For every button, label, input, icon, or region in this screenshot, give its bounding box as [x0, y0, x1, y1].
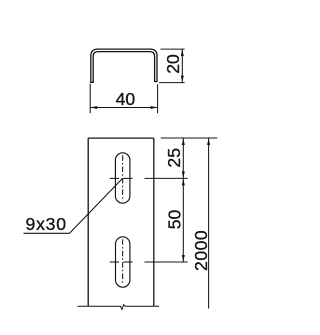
- dimension 40 line: [90, 107, 157, 109]
- dimension 40 arrow left: [90, 106, 97, 109]
- slot 2 center extension line to dimension: [145, 261, 188, 263]
- dimension 25 arrow top: [182, 138, 185, 145]
- slot 1 horizontal center tick left: [110, 177, 119, 179]
- dimension 20 line: [181, 49, 183, 83]
- dimension 40 extension line right: [157, 84, 159, 113]
- svg-text:40: 40: [116, 89, 136, 109]
- slot 2 horizontal center tick left: [110, 261, 119, 263]
- label 9x30 underline: [24, 232, 70, 234]
- dimension 40 arrow right: [151, 106, 158, 109]
- svg-text:50: 50: [164, 210, 184, 230]
- rail front view: top edge: [88, 137, 154, 139]
- dimension 20 arrow top: [181, 49, 184, 56]
- slot 1 horizontal center tick right: [123, 177, 132, 179]
- svg-text:2000: 2000: [191, 230, 211, 271]
- rail front view: bottom break line: [78, 305, 160, 310]
- slot 2 vertical centerline: [122, 239, 124, 285]
- slot 1 (9x30 oblong hole): [115, 153, 129, 203]
- dimension 2000 arrow top: [207, 138, 210, 145]
- rail front view: left edge: [87, 138, 89, 306]
- dimension 50 arrow bottom: [182, 255, 185, 262]
- svg-text:9x30: 9x30: [26, 214, 67, 234]
- leader line from 9x30 label to slot 1 center: [70, 179, 123, 234]
- svg-text:20: 20: [163, 54, 183, 74]
- slot 2 horizontal center tick right: [123, 261, 132, 263]
- dimension 50 arrow top: [182, 179, 185, 186]
- slot 1 center extension line to dimension: [145, 177, 188, 179]
- svg-text:25: 25: [164, 148, 184, 168]
- slot 1 vertical centerline: [122, 155, 124, 201]
- right dimensions: top extension line: [161, 137, 218, 139]
- dimension 25 line: [182, 138, 184, 178]
- dimension 40 extension line left: [89, 84, 91, 114]
- dimension 50 line: [182, 178, 184, 262]
- dimension 20 extension line bottom: [159, 82, 185, 84]
- slot 2 (9x30 oblong hole): [116, 237, 130, 287]
- dimension 20 arrow bottom: [181, 76, 184, 83]
- dimension 2000 line: [208, 138, 210, 309]
- dimension 20 extension line top: [161, 48, 185, 50]
- rail front view: right edge: [153, 138, 155, 306]
- dimension 25 arrow bottom: [182, 171, 185, 178]
- channel cross-section profile (top view): [91, 49, 157, 82]
